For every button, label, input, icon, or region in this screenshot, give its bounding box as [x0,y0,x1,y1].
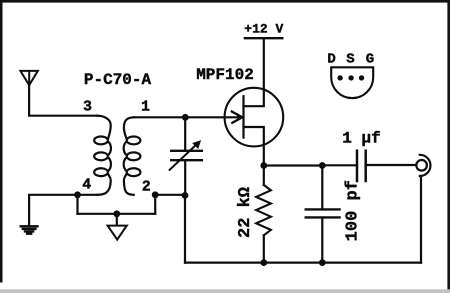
wire C2 junction to C3 [322,164,356,166]
+12V supply bar [245,37,282,39]
svg-text:100 pf: 100 pf [343,180,362,241]
wire pin4 down [76,195,78,214]
transformer T1 primary winding (pins 3-4) [94,116,111,195]
node ground bus center [113,210,120,217]
JFET Q1 gate bar [242,96,244,137]
TO-92 pin dot S [348,75,353,80]
output jack J1 outer shield arc [420,155,431,176]
wire antenna feed down [28,85,30,115]
node source junction [260,162,267,169]
wire lower ground bus [78,213,156,215]
output jack J1 inner circle [416,160,427,171]
wire pin2 to C1 bottom [155,194,185,196]
TO-92 pin dot D [337,75,342,80]
svg-text:22 kΩ: 22 kΩ [236,187,255,238]
wire antenna to pin 3 [29,115,97,117]
svg-text:S: S [346,51,354,67]
transformer T1 secondary winding (pins 1-2) [124,117,141,195]
svg-text:3: 3 [83,99,92,116]
JFET Q1 source lead [244,127,264,166]
wire source junction to C2 top [264,164,323,166]
wire bottom rail [185,262,421,264]
node pin2 junction [152,191,159,198]
earth ground (antenna side) [21,226,38,233]
node C2 bottom junction [319,259,326,266]
wire secondary top to gate [134,116,240,118]
resistor R1 22k lead top [263,166,265,186]
svg-text:P-C70-A: P-C70-A [84,71,152,89]
JFET Q1 drain lead [244,38,264,106]
capacitor C3 1uf plates [357,151,366,181]
node C2 top junction [319,162,326,169]
chassis ground (triangle) [108,226,127,240]
svg-text:4: 4 [82,177,91,194]
variable capacitor C1 arrow [170,142,199,169]
JFET Q1 envelope circle [225,88,284,147]
wire C3 to output jack [367,164,417,166]
svg-text:D: D [327,51,335,67]
TO-92 case outline (bottom view) [331,67,373,98]
svg-text:MPF102: MPF102 [196,66,254,84]
TO-92 pin dot G [359,75,364,80]
wire pin 4 to ground leg [29,195,97,225]
wire to chassis ground [116,214,118,225]
svg-text:2: 2 [142,179,151,196]
wire C2 bottom lead [321,219,323,263]
antenna ANT1 [20,71,37,85]
resistor R1 22k zigzag [256,185,271,235]
border frame bottom gray [0,289,450,293]
wire C1 to bottom rail [184,195,186,262]
JFET Q1 gate arrowhead [232,112,243,123]
wire pin2 down [154,195,156,214]
node C1 top junction [182,114,189,121]
svg-text:G: G [366,51,374,67]
svg-text:1 µf: 1 µf [342,130,380,148]
node R1 bottom junction [260,259,267,266]
wire C1 top lead [184,117,186,149]
variable capacitor C1 plates [171,151,202,160]
border frame left [0,0,3,283]
wire C2 top lead [321,166,323,209]
capacitor C2 100pf plates [306,209,340,217]
resistor R1 lead bottom [263,235,265,262]
border frame top [0,0,450,3]
wire jack shield to bottom rail [420,176,422,263]
wire C1 bottom lead [184,161,186,195]
svg-text:1: 1 [141,99,150,116]
node C1 bottom junction [182,192,189,199]
svg-text:+12 V: +12 V [244,22,283,37]
node pin4 junction [74,191,81,198]
border frame right [447,0,450,290]
